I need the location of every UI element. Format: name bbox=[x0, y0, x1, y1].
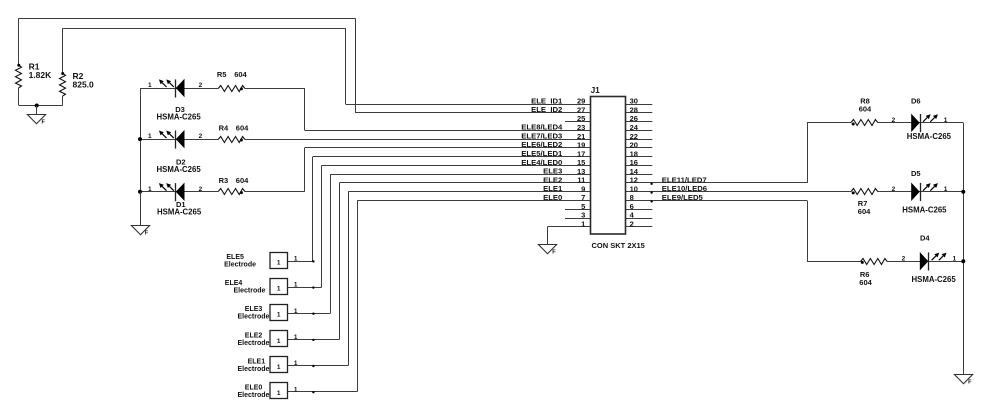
svg-text:D5: D5 bbox=[911, 169, 921, 178]
svg-text:J1: J1 bbox=[591, 86, 600, 95]
svg-text:R3: R3 bbox=[219, 176, 229, 185]
svg-text:604: 604 bbox=[234, 70, 247, 79]
svg-text:5: 5 bbox=[581, 202, 585, 211]
svg-text:24: 24 bbox=[630, 123, 639, 132]
svg-text:20: 20 bbox=[630, 141, 638, 150]
svg-text:1: 1 bbox=[294, 282, 298, 289]
svg-text:604: 604 bbox=[236, 123, 249, 132]
svg-text:ELE_ID2: ELE_ID2 bbox=[531, 105, 562, 114]
svg-text:ELE8/LED4: ELE8/LED4 bbox=[521, 123, 563, 132]
svg-text:HSMA-C265: HSMA-C265 bbox=[157, 113, 202, 122]
svg-text:D6: D6 bbox=[911, 96, 921, 105]
svg-text:ELE5/LED1: ELE5/LED1 bbox=[521, 149, 563, 158]
svg-text:ELE4/LED0: ELE4/LED0 bbox=[521, 158, 562, 167]
svg-text:8: 8 bbox=[630, 193, 634, 202]
svg-text:1: 1 bbox=[294, 334, 298, 341]
svg-text:Electrode: Electrode bbox=[238, 366, 270, 373]
svg-text:30: 30 bbox=[630, 97, 638, 106]
svg-text:ELE9/LED5: ELE9/LED5 bbox=[662, 193, 704, 202]
svg-text:604: 604 bbox=[236, 176, 249, 185]
svg-text:Electrode: Electrode bbox=[238, 314, 270, 321]
svg-text:604: 604 bbox=[859, 278, 872, 287]
svg-text:ELE11/LED7: ELE11/LED7 bbox=[662, 175, 707, 184]
svg-text:Electrode: Electrode bbox=[234, 288, 266, 295]
svg-text:ELE5: ELE5 bbox=[226, 254, 244, 261]
svg-text:10: 10 bbox=[630, 184, 638, 193]
svg-text:R5: R5 bbox=[217, 70, 227, 79]
svg-text:12: 12 bbox=[630, 176, 638, 185]
svg-text:21: 21 bbox=[577, 132, 585, 141]
svg-text:Electrode: Electrode bbox=[224, 261, 256, 268]
svg-text:1: 1 bbox=[277, 390, 281, 397]
svg-text:1: 1 bbox=[944, 186, 948, 193]
svg-text:ELE6/LED2: ELE6/LED2 bbox=[521, 140, 562, 149]
svg-text:Electrode: Electrode bbox=[238, 392, 270, 399]
svg-text:ELE2: ELE2 bbox=[245, 332, 263, 339]
svg-text:16: 16 bbox=[630, 158, 638, 167]
svg-text:HSMA-C265: HSMA-C265 bbox=[912, 275, 957, 284]
svg-text:2: 2 bbox=[199, 82, 203, 89]
svg-text:1: 1 bbox=[294, 360, 298, 367]
svg-text:ELE_ID1: ELE_ID1 bbox=[531, 96, 563, 105]
svg-text:3: 3 bbox=[581, 211, 585, 220]
svg-text:ELE3: ELE3 bbox=[245, 306, 263, 313]
svg-text:825.0: 825.0 bbox=[73, 80, 95, 90]
svg-text:ELE0: ELE0 bbox=[245, 385, 263, 392]
svg-text:HSMA-C265: HSMA-C265 bbox=[157, 208, 202, 217]
svg-text:1: 1 bbox=[277, 338, 281, 345]
svg-text:14: 14 bbox=[630, 167, 639, 176]
svg-text:ELE7/LED3: ELE7/LED3 bbox=[521, 132, 562, 141]
svg-text:27: 27 bbox=[577, 106, 585, 115]
svg-text:2: 2 bbox=[892, 186, 896, 193]
svg-text:1: 1 bbox=[944, 117, 948, 124]
svg-text:1: 1 bbox=[581, 220, 585, 229]
svg-text:1: 1 bbox=[277, 286, 281, 293]
svg-text:1: 1 bbox=[294, 256, 298, 263]
svg-text:7: 7 bbox=[581, 193, 585, 202]
svg-text:HSMA-C265: HSMA-C265 bbox=[157, 165, 202, 174]
svg-text:CON SKT 2X15: CON SKT 2X15 bbox=[592, 241, 645, 250]
svg-text:2: 2 bbox=[199, 133, 203, 140]
svg-text:R4: R4 bbox=[219, 123, 229, 132]
svg-text:2: 2 bbox=[199, 186, 203, 193]
svg-text:HSMA-C265: HSMA-C265 bbox=[907, 132, 952, 141]
svg-text:ELE0: ELE0 bbox=[543, 193, 562, 202]
svg-text:2: 2 bbox=[630, 220, 634, 229]
svg-text:1: 1 bbox=[277, 364, 281, 371]
svg-text:604: 604 bbox=[858, 207, 871, 216]
svg-text:11: 11 bbox=[577, 176, 585, 185]
svg-text:19: 19 bbox=[577, 141, 585, 150]
svg-text:604: 604 bbox=[859, 104, 872, 113]
svg-text:28: 28 bbox=[630, 106, 638, 115]
svg-text:ELE4: ELE4 bbox=[225, 280, 243, 287]
svg-text:6: 6 bbox=[630, 202, 634, 211]
svg-text:1: 1 bbox=[148, 133, 152, 140]
svg-text:23: 23 bbox=[577, 123, 585, 132]
svg-text:ELE3: ELE3 bbox=[543, 167, 562, 176]
svg-text:Electrode: Electrode bbox=[238, 340, 270, 347]
svg-text:29: 29 bbox=[577, 97, 585, 106]
svg-text:13: 13 bbox=[577, 167, 585, 176]
svg-text:ELE10/LED6: ELE10/LED6 bbox=[662, 184, 707, 193]
svg-text:ELE1: ELE1 bbox=[543, 184, 563, 193]
svg-text:1: 1 bbox=[277, 259, 281, 266]
svg-text:22: 22 bbox=[630, 132, 638, 141]
svg-text:18: 18 bbox=[630, 149, 638, 158]
svg-text:1: 1 bbox=[277, 312, 281, 319]
svg-text:ELE2: ELE2 bbox=[543, 175, 562, 184]
svg-text:26: 26 bbox=[630, 114, 638, 123]
svg-text:25: 25 bbox=[577, 114, 585, 123]
svg-text:1: 1 bbox=[953, 255, 957, 262]
svg-text:HSMA-C265: HSMA-C265 bbox=[902, 205, 947, 214]
svg-text:D4: D4 bbox=[920, 233, 930, 242]
svg-text:2: 2 bbox=[892, 117, 896, 124]
svg-text:15: 15 bbox=[577, 158, 585, 167]
svg-text:1: 1 bbox=[294, 308, 298, 315]
svg-text:1.82K: 1.82K bbox=[29, 70, 53, 80]
svg-text:17: 17 bbox=[577, 149, 585, 158]
svg-text:2: 2 bbox=[902, 255, 906, 262]
svg-text:ELE1: ELE1 bbox=[248, 358, 266, 365]
svg-text:1: 1 bbox=[148, 82, 152, 89]
svg-text:1: 1 bbox=[294, 386, 298, 393]
svg-text:1: 1 bbox=[148, 186, 152, 193]
svg-text:9: 9 bbox=[581, 184, 585, 193]
